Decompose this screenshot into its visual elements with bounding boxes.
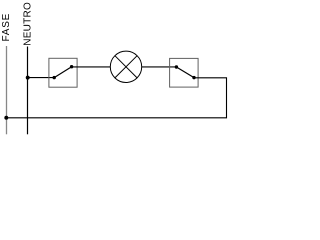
svg-text:NEUTRO: NEUTRO xyxy=(23,2,34,46)
junction dot on FASE rail xyxy=(4,116,8,120)
lamp L1 cross stroke 2 xyxy=(115,56,137,78)
svg-text:FASE: FASE xyxy=(1,13,12,42)
neutral rail (NEUTRO vertical line) xyxy=(27,47,29,135)
switch box S2 xyxy=(170,58,199,87)
lamp L1 cross stroke 1 xyxy=(115,56,137,78)
switch S1 lever xyxy=(54,67,71,78)
switch box S1 xyxy=(49,58,77,87)
switch S2 lever xyxy=(176,67,194,78)
lamp L1 circle xyxy=(110,51,141,82)
switch S1 terminal dot (input) xyxy=(53,76,56,79)
switch S1 terminal dot (output) xyxy=(70,65,73,68)
switch S2 terminal dot (input) xyxy=(175,65,178,68)
wire switch S2 to right side, down and back to FASE rail xyxy=(6,78,226,118)
junction dot on NEUTRO rail xyxy=(26,76,30,80)
switch S2 terminal dot (output) xyxy=(192,76,195,79)
phase rail (FASE vertical line) xyxy=(6,46,8,134)
wire lamp to switch S2 xyxy=(142,66,177,68)
wire NEUTRO rail to switch S1 xyxy=(28,77,55,79)
wire switch S1 to lamp xyxy=(72,66,111,68)
